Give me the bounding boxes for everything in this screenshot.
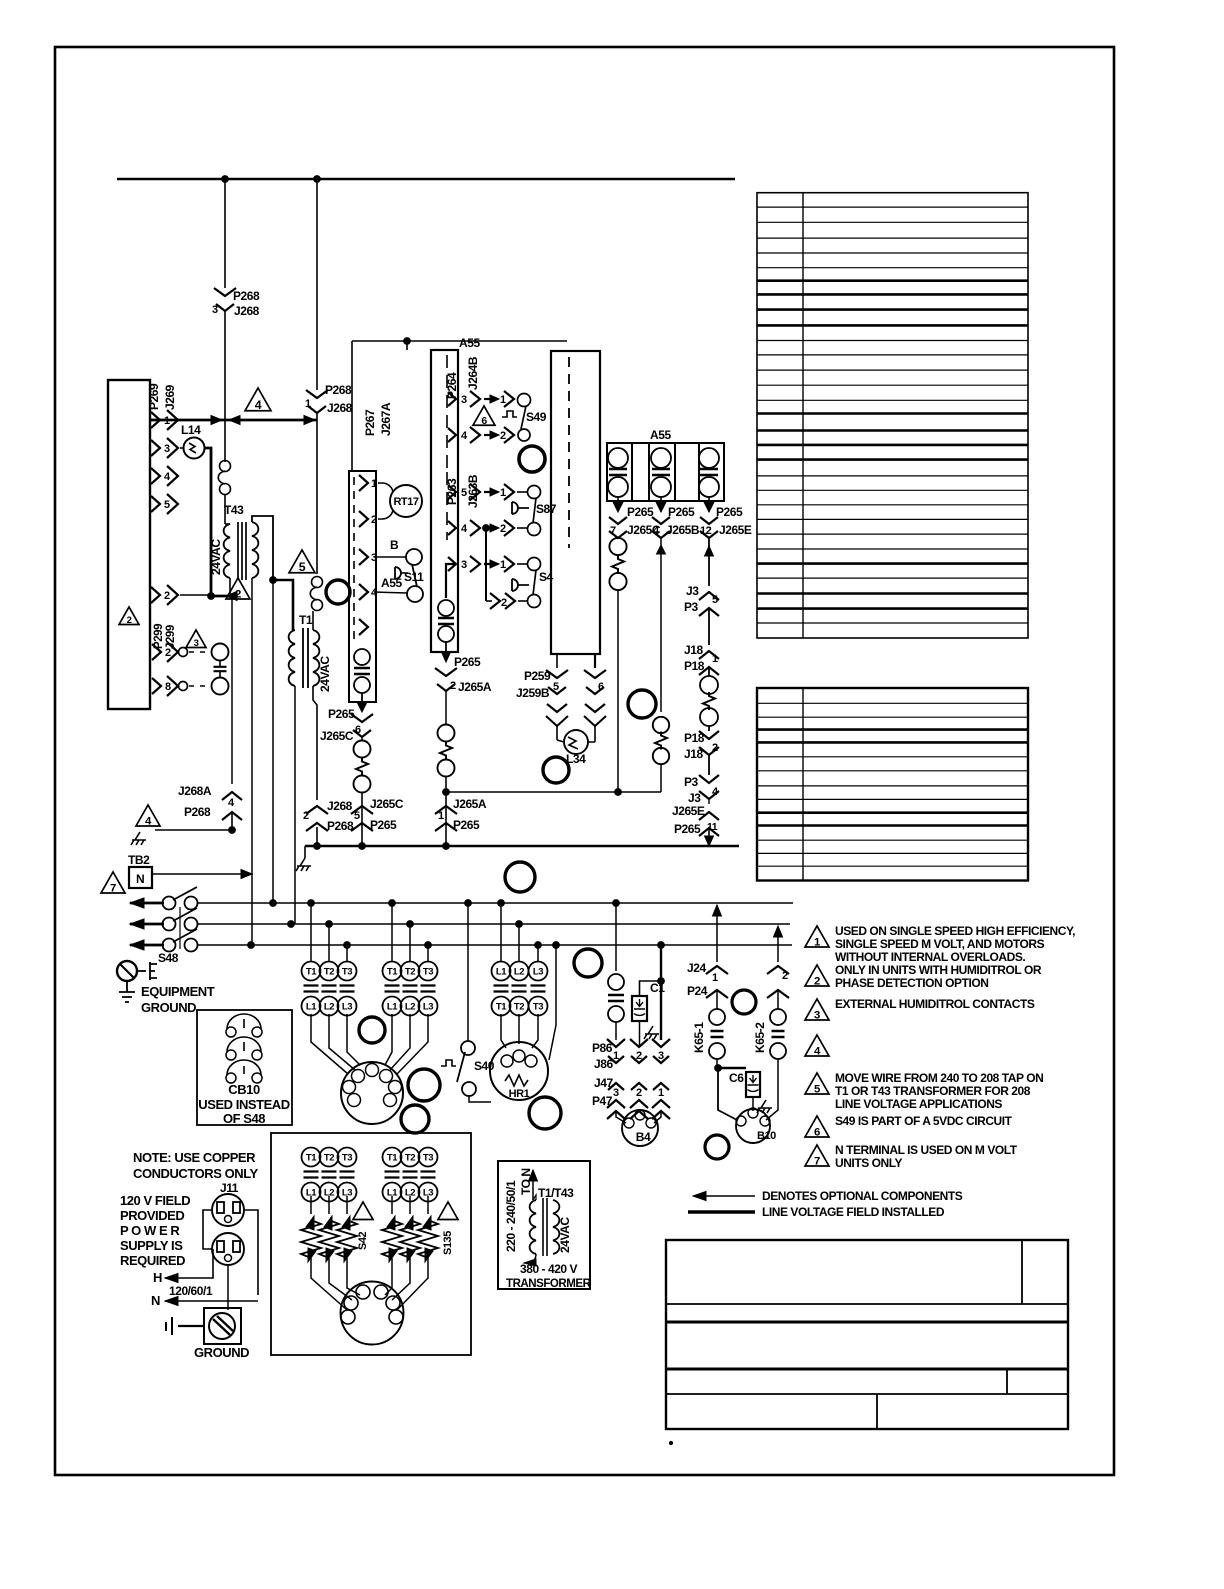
wires into B4 (616, 1111, 626, 1123)
motor B4 (622, 1110, 658, 1146)
svg-text:P267: P267 (363, 409, 377, 436)
capacitor plates sensor (214, 667, 227, 671)
svg-text:2: 2 (303, 810, 309, 822)
wire pin3 to L14 (180, 447, 183, 449)
svg-text:A55: A55 (650, 428, 671, 442)
svg-text:L2: L2 (324, 1002, 334, 1013)
node bus1 tap (270, 900, 277, 907)
svg-text:L14: L14 (181, 423, 201, 437)
transformer T1 core (302, 628, 304, 688)
svg-text:5: 5 (461, 487, 467, 499)
svg-text:J265A: J265A (458, 680, 492, 694)
wire T43 secondary bottom long (251, 578, 253, 945)
svg-text:CB10: CB10 (228, 1082, 260, 1097)
connector J268 pin 2 / P268 (306, 806, 328, 814)
heater contact B1 (383, 1148, 402, 1167)
svg-text:P3: P3 (684, 600, 699, 614)
svg-text:CONDUCTORS ONLY: CONDUCTORS ONLY (133, 1166, 258, 1181)
equipment ground symbol (117, 961, 137, 981)
svg-text:4: 4 (255, 398, 262, 412)
node bus3 tap (658, 942, 665, 949)
warning triangle 2 below T43 (226, 578, 250, 599)
wire vertical drop to P268 pin 1 (316, 179, 318, 390)
svg-text:7: 7 (110, 882, 116, 894)
wire J259 col B (594, 654, 596, 668)
svg-text:P268: P268 (233, 289, 260, 303)
contactor HR contact 3 (529, 962, 548, 981)
svg-text:2: 2 (782, 970, 788, 982)
motor heater-box (341, 1282, 404, 1345)
wire K65-1 to bus1 (716, 908, 718, 962)
connector box J259 (tall) (551, 351, 600, 654)
svg-text:L3: L3 (533, 967, 543, 978)
wire J265C down (361, 737, 363, 741)
heater element x311 (310, 1196, 312, 1214)
svg-text:J18: J18 (684, 643, 703, 657)
svg-text:P86: P86 (592, 1041, 613, 1055)
wire bus to contact K2-2 (409, 924, 411, 962)
dashed line in J259 box (568, 357, 570, 548)
connector J267A pin 2 (359, 511, 368, 527)
node C1 tap (658, 978, 665, 985)
svg-text:P268: P268 (184, 805, 211, 819)
transformer T43 secondary coil (252, 522, 258, 578)
node bus3 tap (248, 942, 255, 949)
svg-text:5: 5 (299, 560, 306, 574)
wire heavy pin2 row (180, 594, 211, 596)
contactor K2 contact 3 (419, 962, 438, 981)
svg-text:3: 3 (814, 1009, 820, 1021)
table upper (component legend) (757, 193, 1028, 638)
svg-text:T1: T1 (306, 1153, 317, 1164)
warning triangle S135 (438, 1202, 458, 1220)
svg-text:J265B: J265B (666, 523, 700, 537)
plug J11 lower (212, 1233, 244, 1265)
svg-text:J269: J269 (163, 384, 177, 410)
node bus2 tap (326, 921, 333, 928)
svg-text:N: N (136, 872, 144, 886)
svg-text:P18: P18 (684, 731, 705, 745)
svg-text:1: 1 (438, 810, 444, 822)
wire dashed pin8 to sensor (189, 685, 211, 687)
svg-text:C1: C1 (650, 981, 665, 995)
svg-text:USED ON SINGLE SPEED HIGH EFFI: USED ON SINGLE SPEED HIGH EFFICIENCY, (835, 924, 1075, 938)
connector P268 pin 3 (214, 288, 236, 296)
wire option primary top (533, 1195, 536, 1200)
fuse B4 col1 (608, 974, 624, 990)
wire T43 primary bottom (229, 578, 231, 596)
title block line2 thick (666, 1321, 1068, 1324)
transformer option core (542, 1198, 544, 1256)
grommet mid (628, 690, 656, 718)
connector J269 pin 4 (151, 468, 160, 484)
svg-text:1: 1 (500, 487, 506, 499)
heater contact B2 (401, 1148, 420, 1167)
svg-text:K65-2: K65-2 (753, 1022, 767, 1053)
svg-text:3: 3 (613, 1087, 619, 1099)
title block line3 thick (666, 1368, 1068, 1371)
svg-text:3: 3 (371, 552, 377, 564)
svg-text:T43: T43 (224, 503, 244, 517)
svg-text:L3: L3 (423, 1002, 433, 1013)
svg-text:J267A: J267A (379, 402, 393, 436)
switch S40 (461, 1041, 475, 1055)
node bus1 tap (613, 900, 620, 907)
thermistor RT17 (390, 485, 422, 517)
contactor K2 contact 2 (401, 962, 420, 981)
wire vertical drop to P268 pin 3 (224, 179, 226, 288)
svg-text:J268: J268 (327, 401, 353, 415)
fuse col x618 (608, 448, 628, 468)
connector J299 pin 8 (152, 678, 161, 694)
connector J18 pin 1 (699, 651, 719, 659)
svg-text:P268: P268 (327, 819, 354, 833)
svg-text:6: 6 (814, 1126, 820, 1138)
svg-text:1: 1 (500, 559, 506, 571)
wire C6 feed thick (718, 1067, 746, 1069)
wire ground bus (305, 845, 739, 847)
warning triangle 5 (289, 550, 315, 573)
node gbus1 (314, 843, 321, 850)
wire C1 feed (640, 981, 662, 996)
transformer T43 core (237, 522, 239, 580)
svg-text:EQUIPMENT: EQUIPMENT (141, 984, 215, 999)
indicator light L14 (184, 438, 205, 459)
svg-text:2: 2 (636, 1087, 642, 1099)
fuse outputs (617, 497, 619, 510)
svg-text:1: 1 (371, 478, 377, 490)
wire line bus 1 arrow (130, 898, 144, 908)
wire bus1 to B4 col1 (615, 903, 617, 971)
connector J263B row 4-2 (448, 521, 456, 535)
svg-text:L3: L3 (342, 1002, 352, 1013)
wire K65-1 to B10 (718, 1068, 737, 1120)
svg-text:2: 2 (235, 588, 241, 600)
svg-text:3: 3 (164, 443, 170, 455)
switch S87 (528, 486, 541, 499)
svg-text:P269: P269 (147, 383, 161, 410)
title block line4 (666, 1393, 1068, 1395)
note triangle 3 (805, 999, 829, 1020)
title block line1 (666, 1303, 1068, 1305)
transformer option primary (530, 1200, 536, 1254)
node T1 feed junction (270, 577, 277, 584)
svg-text:T2: T2 (405, 1153, 415, 1164)
svg-text:TRANSFORMER: TRANSFORMER (506, 1278, 592, 1290)
wire bus to contact K2-3 (427, 945, 429, 962)
svg-text:T2: T2 (324, 1153, 334, 1164)
svg-text:DENOTES OPTIONAL COMPONENTS: DENOTES OPTIONAL COMPONENTS (762, 1189, 963, 1203)
svg-text:SINGLE SPEED M VOLT, AND MOTOR: SINGLE SPEED M VOLT, AND MOTORS (835, 937, 1045, 951)
contactor K2 contact 1 (383, 962, 402, 981)
title block row1 divider (1021, 1240, 1023, 1304)
fuse P267 box (354, 649, 370, 665)
svg-text:T2: T2 (324, 967, 334, 978)
svg-text:P24: P24 (687, 984, 708, 998)
connector J267A pin 4 (359, 584, 368, 600)
svg-text:4: 4 (228, 797, 235, 809)
heater element x392 (391, 1196, 393, 1214)
wire row4 to row2 (485, 528, 487, 601)
svg-text:4: 4 (164, 471, 171, 483)
wire J24 down (716, 990, 718, 1009)
svg-text:6: 6 (598, 681, 604, 693)
wire heavy row pin1 (150, 419, 317, 422)
node bus1 tap (389, 900, 396, 907)
node bus2 tap (407, 921, 414, 928)
svg-text:P265: P265 (674, 822, 701, 836)
svg-text:P265: P265 (370, 818, 397, 832)
svg-text:J18: J18 (684, 747, 703, 761)
wire line bus 1 (197, 902, 793, 904)
svg-text:T1 OR T43 TRANSFORMER FOR 208: T1 OR T43 TRANSFORMER FOR 208 (835, 1084, 1031, 1098)
svg-text:380 - 420 V: 380 - 420 V (520, 1262, 578, 1276)
svg-text:P265: P265 (453, 818, 480, 832)
connector P259 col B (584, 670, 606, 678)
fuse block A55 box (607, 443, 724, 501)
svg-text:ONLY IN UNITS WITH HUMIDITROL: ONLY IN UNITS WITH HUMIDITROL OR (835, 963, 1042, 977)
svg-text:J264B: J264B (466, 356, 480, 390)
heater contact A3 (338, 1148, 357, 1167)
svg-text:7: 7 (814, 1155, 820, 1167)
wire bus1 to S40 (467, 903, 469, 1041)
wire fuse col3 down (708, 538, 710, 586)
breaker CB10 pole 2 (226, 1050, 236, 1060)
contactor K1 contact 2 (320, 962, 339, 981)
svg-text:J265C: J265C (320, 729, 354, 743)
connector J265C pin 7 (609, 517, 627, 524)
warning triangle S42 (353, 1202, 373, 1220)
svg-text:P268: P268 (325, 383, 352, 397)
breaker CB10 pole 3 (226, 1073, 236, 1083)
svg-text:T1/T43: T1/T43 (538, 1186, 574, 1200)
svg-text:1: 1 (658, 1087, 664, 1099)
wire line bus 3 (197, 944, 792, 946)
svg-text:N: N (151, 1293, 160, 1308)
connector J269 pin 1 (151, 412, 160, 428)
svg-text:L1: L1 (387, 1002, 398, 1013)
svg-text:S42: S42 (357, 1231, 369, 1250)
transformer option box (498, 1161, 590, 1289)
switch S48 pole 1 (163, 897, 176, 910)
wire link y792 (446, 791, 661, 793)
wire bus to contact K1-2 (328, 924, 330, 962)
svg-text:P265: P265 (716, 505, 743, 519)
wire T1 sec bottom (313, 686, 317, 800)
svg-text:TB2: TB2 (128, 853, 150, 867)
fuse block dividers (631, 443, 633, 501)
svg-text:4: 4 (461, 430, 468, 442)
connector J265C pin 5 lower (351, 806, 373, 814)
node gbus2 (359, 843, 366, 850)
wire arrow to N (532, 1174, 534, 1200)
connector J265A pin 1 lower (435, 806, 457, 814)
svg-text:OF S48: OF S48 (223, 1111, 265, 1126)
svg-text:A55: A55 (459, 336, 480, 350)
plug J11 upper (212, 1194, 244, 1226)
svg-text:H: H (153, 1270, 162, 1285)
wire line bus 2 (197, 923, 790, 925)
wire T1 pri bottom to bus2 (294, 686, 296, 924)
breaker CB10 pole 1 (226, 1027, 236, 1037)
svg-text:PHASE DETECTION OPTION: PHASE DETECTION OPTION (835, 976, 988, 990)
wire T43 sec to bus1 (272, 580, 274, 903)
svg-text:T1: T1 (387, 1153, 398, 1164)
wire bus3 direct to HR1 (549, 945, 556, 1060)
relay contact K65-1 (709, 1009, 725, 1025)
contactor HR contact 1 (492, 962, 511, 981)
wire J18-2 to P3-4 (708, 755, 710, 775)
warning triangle 2 in box (119, 607, 139, 625)
svg-text:L2: L2 (405, 1002, 415, 1013)
svg-text:24VAC: 24VAC (209, 539, 223, 575)
wire line bus 3 arrow (130, 940, 144, 950)
wire option arrow bottom (528, 1254, 536, 1262)
node bus1 tap (498, 900, 505, 907)
svg-text:N TERMINAL IS USED ON M VOLT: N TERMINAL IS USED ON M VOLT (835, 1143, 1018, 1157)
svg-text:1: 1 (500, 394, 506, 406)
svg-text:6: 6 (481, 416, 487, 427)
connector J265E pin 12 (700, 517, 718, 524)
wire bus3 to B4 col3 thick (660, 945, 662, 1040)
connector J269 pin 2 (151, 587, 160, 603)
ground symbol note4 (131, 832, 146, 845)
svg-text:J265C: J265C (370, 797, 404, 811)
grommet A55 strip (519, 446, 545, 472)
svg-text:2: 2 (371, 514, 377, 526)
connector P3 pin 4 (699, 775, 719, 783)
svg-text:J268A: J268A (178, 784, 212, 798)
heater element x410 (409, 1196, 411, 1214)
svg-text:3: 3 (461, 394, 467, 406)
node gbus3 (443, 843, 450, 850)
svg-text:2: 2 (500, 430, 506, 442)
svg-text:T1: T1 (306, 967, 317, 978)
svg-text:S87: S87 (536, 502, 557, 516)
note triangle 2 (805, 965, 829, 986)
wires heater to motor2 (311, 1268, 347, 1310)
svg-text:J11: J11 (220, 1181, 239, 1195)
svg-text:220 - 240/50/1: 220 - 240/50/1 (504, 1180, 518, 1252)
warning triangle 4 lower (136, 805, 160, 826)
control box A55 strip (431, 350, 458, 652)
svg-text:GROUND: GROUND (194, 1345, 249, 1360)
wire fuse P267 down (361, 693, 363, 706)
node bus3 tap (535, 942, 542, 949)
connector B4 col2 chevrons (630, 1039, 648, 1047)
svg-text:T2: T2 (405, 967, 415, 978)
svg-text:T3: T3 (423, 1153, 433, 1164)
heater element x428 (427, 1196, 429, 1214)
warning triangle 3 (186, 630, 206, 648)
humiditrol sensor contact lower (212, 678, 229, 695)
svg-text:PROVIDED: PROVIDED (120, 1208, 184, 1223)
contactor HR contact 2 (510, 962, 529, 981)
svg-text:J3: J3 (686, 584, 699, 598)
svg-text:T1: T1 (299, 613, 313, 627)
svg-text:120/60/1: 120/60/1 (169, 1284, 213, 1298)
wire overload down (445, 776, 447, 846)
wire T43 secondary top elbow (252, 516, 273, 580)
wire J259 col A (556, 654, 558, 668)
svg-text:J268: J268 (234, 304, 260, 318)
connector J264B row 4-2 (448, 428, 456, 442)
wire J265E to gbus (708, 828, 710, 836)
wire L14 to T43 (thick) (205, 448, 211, 596)
node bus3 tap (553, 942, 560, 949)
svg-text:HR1: HR1 (509, 1088, 530, 1100)
note triangle 6 (805, 1116, 829, 1137)
transformer T1 secondary coil (313, 630, 319, 686)
connector row 3-1 S4 (448, 557, 456, 571)
humiditrol sensor contact upper (212, 644, 229, 661)
svg-text:L1: L1 (496, 967, 507, 978)
switch S49 (518, 394, 531, 407)
note triangle 1 (805, 926, 829, 947)
wire K65-2 to bus2 (777, 929, 779, 962)
wire top link (352, 340, 567, 342)
heater element x329 (328, 1196, 330, 1214)
overload J265A (438, 725, 455, 742)
svg-text:S11: S11 (404, 570, 424, 584)
svg-text:P265: P265 (668, 505, 695, 519)
svg-text:S49: S49 (526, 410, 547, 424)
wire to ground bus (316, 827, 318, 846)
wire feed to T1 primary (thick) (273, 580, 293, 630)
connector J265B pin 4 (652, 517, 670, 524)
svg-text:S48: S48 (158, 951, 179, 965)
connector row 2 S4 (486, 600, 492, 602)
svg-text:B10: B10 (757, 1130, 776, 1142)
svg-text:L2: L2 (514, 967, 524, 978)
grommet right upper (732, 990, 756, 1014)
svg-text:3: 3 (461, 559, 467, 571)
note triangle 5 (805, 1073, 829, 1094)
wire P18 to overload (708, 667, 710, 676)
border frame (55, 47, 1114, 1475)
svg-text:P265: P265 (627, 505, 654, 519)
node bus3 tap (344, 942, 351, 949)
wire J268A down (231, 812, 233, 830)
node row4 tap (483, 525, 490, 532)
svg-text:B4: B4 (636, 1130, 651, 1144)
node top link (404, 338, 411, 345)
switch S48 pole 3 (163, 939, 176, 952)
transformer T43 primary coil (224, 524, 230, 578)
svg-text:J265E: J265E (672, 804, 705, 818)
grommet right of compressor 1 (408, 1069, 440, 1101)
node J268A ground join (229, 827, 236, 834)
wire P3 to J18 (708, 608, 710, 645)
svg-text:S135: S135 (442, 1231, 454, 1255)
contactor K1 contact 3 (338, 962, 357, 981)
svg-text:1: 1 (712, 653, 718, 665)
wires J11 frame (203, 1210, 212, 1249)
svg-text:T3: T3 (423, 967, 433, 978)
connector J267A pin 1 (359, 475, 368, 491)
wire S40 to HR1 (469, 1096, 491, 1102)
grommet above compressor (359, 1017, 385, 1043)
connector J267A pin 3 (359, 549, 368, 565)
connector J24 pin 2 (767, 966, 789, 974)
wire heavy pin2 bottom (211, 595, 237, 598)
connector P18 pin 2 (699, 731, 719, 739)
switch S48 linkage (179, 907, 181, 949)
svg-text:TO N: TO N (519, 1168, 533, 1195)
node junction top bus left (222, 176, 229, 183)
wire top horizontal bus (117, 178, 735, 180)
svg-text:RT17: RT17 (393, 496, 418, 508)
